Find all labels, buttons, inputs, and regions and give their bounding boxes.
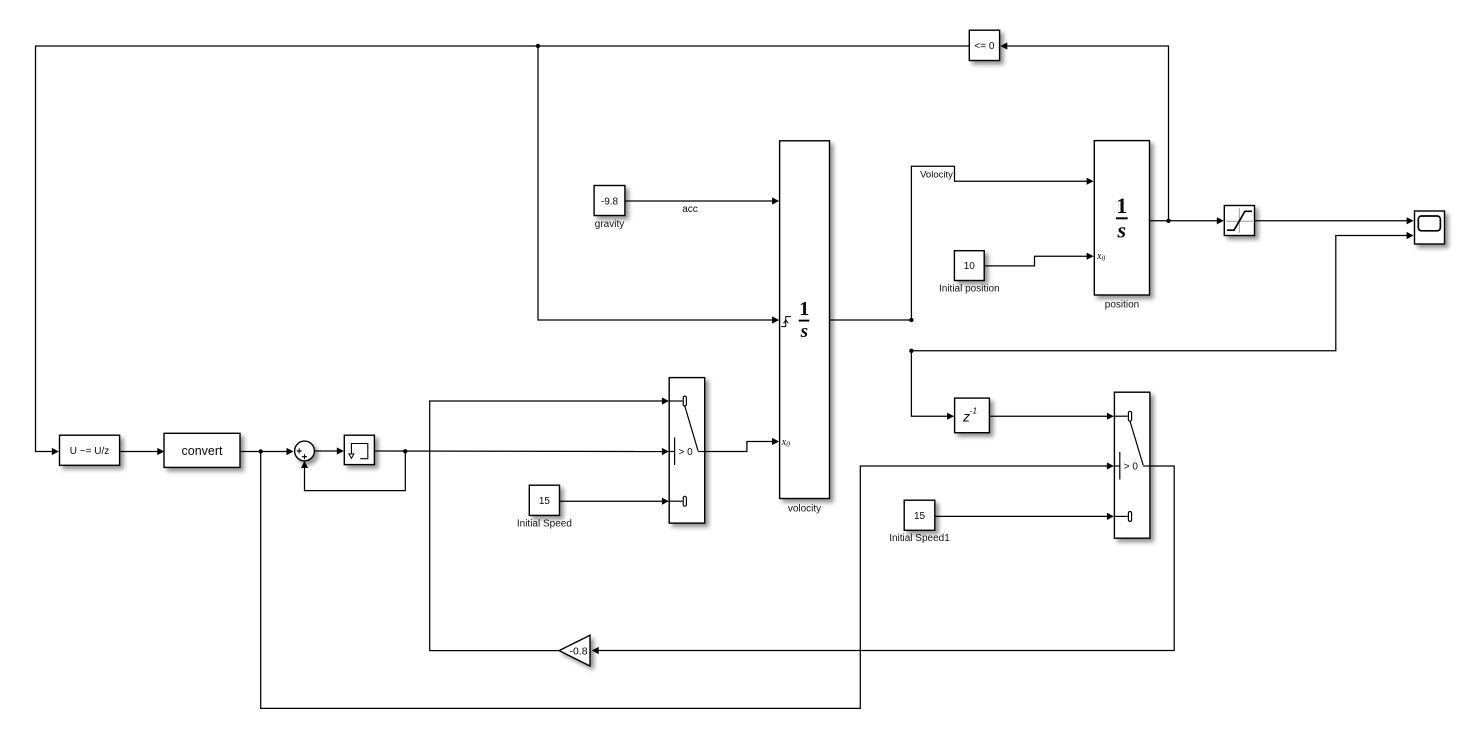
wire: position output up to compare block input (right side, flipped) <box>1000 42 1168 220</box>
svg-text:acc: acc <box>682 204 698 215</box>
node junction position out <box>1166 219 1170 223</box>
svg-text:Initial Speed1: Initial Speed1 <box>889 533 950 544</box>
integrator velocity <box>780 141 830 499</box>
node junction velocity out upper <box>909 318 913 322</box>
saturation block <box>1224 206 1254 236</box>
wire: 15 to switch1 data input 3 <box>560 498 669 505</box>
wire: memory output to switch1 control <box>374 448 669 455</box>
compare block <= 0 <box>969 30 999 60</box>
wire: velocity branch right then up to scope input 2 <box>911 232 1413 351</box>
node junction on top wire <box>536 44 540 48</box>
svg-text:volocity: volocity <box>788 504 821 515</box>
unit delay block z-1 <box>955 398 990 433</box>
wire: convert output to sum <box>240 448 294 455</box>
wire: saturation to scope input 1 <box>1255 217 1414 224</box>
svg-text:1: 1 <box>799 298 809 320</box>
svg-text:10: 10 <box>964 261 976 272</box>
wire: 15 to switch2 data input 3 <box>935 513 1114 520</box>
sum block <box>295 441 315 461</box>
wire: memory feedback down and into sum bottom input <box>301 451 405 490</box>
svg-text:-9.8: -9.8 <box>601 196 619 207</box>
data type conversion block convert <box>164 433 240 467</box>
wire: 10 to position x0 input <box>984 253 1093 266</box>
wire: sum output to memory <box>314 447 343 454</box>
switch1 block <box>669 378 705 523</box>
svg-text:gravity: gravity <box>595 219 624 230</box>
svg-text:15: 15 <box>914 511 926 522</box>
wire: branch from top wire down to velocity integrator reset input <box>538 46 779 324</box>
wire: unit delay to switch2 input 1 <box>989 413 1114 420</box>
wire: switch2 output around right and down to gain input <box>592 466 1174 654</box>
svg-text:position: position <box>1105 300 1139 311</box>
wire: velocity branch down to unit delay input <box>911 351 954 420</box>
node junction after memory <box>403 449 407 453</box>
wire: position output to saturation <box>1149 217 1224 224</box>
wire: gravity to velocity integrator acc input <box>625 197 779 204</box>
wire: gain output left and up to switch1 input 1 <box>430 397 669 650</box>
svg-text:-0.8: -0.8 <box>569 645 587 657</box>
svg-text:s: s <box>1117 218 1127 243</box>
svg-text:> 0: > 0 <box>679 447 694 458</box>
svg-text:Volocity: Volocity <box>920 169 953 180</box>
wire: detect change to convert <box>120 448 165 455</box>
svg-text:x0: x0 <box>1096 251 1105 263</box>
svg-text:x0: x0 <box>781 437 790 449</box>
node junction after convert <box>259 449 263 453</box>
scope block <box>1415 211 1445 244</box>
wire: velocity to position input with Volocity name tag <box>911 166 1093 320</box>
gain -0.8 (flipped) <box>559 635 590 666</box>
svg-text:s: s <box>800 321 808 342</box>
wire: velocity output to junction <box>830 319 912 321</box>
wire: switch1 output to velocity x0 input <box>705 438 779 452</box>
svg-text:U ~= U/z: U ~= U/z <box>70 446 109 457</box>
svg-text:Initial position: Initial position <box>939 284 1000 295</box>
detect change block U ~= U/z <box>60 435 120 465</box>
constant 10 <box>954 251 984 281</box>
constant 15 Initial Speed1 <box>904 500 935 530</box>
svg-text:> 0: > 0 <box>1124 462 1139 473</box>
svg-text:convert: convert <box>182 444 224 458</box>
svg-text:15: 15 <box>539 496 551 507</box>
memory block <box>344 435 374 464</box>
node junction velocity out lower <box>909 349 913 353</box>
constant gravity -9.8 <box>594 186 625 216</box>
wire: compare output left along top and down to detect block input <box>36 46 970 455</box>
integrator position <box>1094 141 1149 295</box>
constant 15 Initial Speed <box>529 485 559 515</box>
switch2 block <box>1114 392 1150 538</box>
wire: convert branch down across bottom and up to switch1b control <box>261 452 1114 709</box>
svg-text:1: 1 <box>1116 193 1127 218</box>
svg-text:-1: -1 <box>970 406 978 416</box>
svg-text:<= 0: <= 0 <box>974 41 994 52</box>
svg-text:Initial Speed: Initial Speed <box>517 518 572 529</box>
